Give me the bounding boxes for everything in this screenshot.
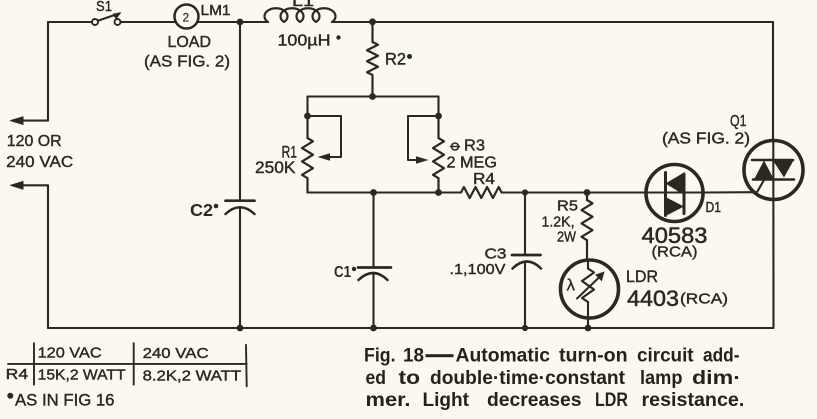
svg-text:to: to — [399, 368, 421, 389]
svg-text:L1: L1 — [292, 0, 314, 10]
svg-text:4403: 4403 — [627, 286, 679, 311]
svg-text:Light: Light — [423, 390, 470, 411]
svg-text:lamp: lamp — [640, 368, 683, 389]
node: lamp output / C2 branch junction — [237, 19, 244, 26]
svg-text:decreases: decreases — [487, 390, 582, 411]
potentiometer R3 — [433, 116, 444, 193]
capacitor C2 — [226, 22, 255, 328]
node: LDR bottom — [585, 325, 592, 332]
svg-text:15K,2 WATT: 15K,2 WATT — [38, 367, 126, 384]
wire: lamp to L1 — [197, 21, 268, 23]
svg-text:λ: λ — [567, 276, 576, 295]
resistor R4 — [461, 187, 502, 198]
resistor R5 — [582, 193, 593, 261]
svg-text:120 VAC: 120 VAC — [38, 345, 102, 362]
wire: lower-left branch from AC arrow down to bottom rail — [14, 185, 48, 328]
svg-text:resistance.: resistance. — [642, 390, 745, 411]
diac D1 — [646, 165, 703, 222]
svg-text:D1: D1 — [706, 199, 722, 216]
svg-text:LOAD: LOAD — [168, 34, 212, 51]
svg-text:Automatic: Automatic — [456, 346, 551, 367]
wire: R1 top drop — [306, 97, 308, 117]
AC source arrow upper — [11, 117, 24, 125]
capacitor C3 — [512, 193, 541, 329]
node: R5 branch junction — [584, 189, 591, 196]
triac Q1 — [744, 22, 803, 328]
wire: middle rail R1 to R4 — [308, 191, 462, 193]
svg-text:S1: S1 — [96, 0, 112, 15]
svg-text:add-: add- — [703, 346, 740, 367]
lamp LM1 — [175, 5, 199, 29]
wire: D1 to Q1 gate — [703, 180, 764, 193]
R3 wiper loop — [408, 116, 439, 164]
node: R2 bottom junction — [369, 93, 376, 100]
svg-text:R5: R5 — [557, 198, 578, 215]
svg-text:(AS FIG. 2): (AS FIG. 2) — [662, 131, 750, 148]
photocell LDR — [561, 260, 619, 318]
svg-text:2: 2 — [183, 11, 190, 25]
node: C2 bottom — [237, 325, 244, 332]
svg-text:C3: C3 — [485, 246, 507, 263]
caption line 2 — [366, 368, 742, 389]
wire: switch to lamp — [121, 21, 176, 23]
figure caption — [364, 346, 744, 412]
inductor L1 — [265, 8, 336, 22]
svg-text:240 VAC: 240 VAC — [143, 345, 209, 362]
svg-text:Fig.: Fig. — [364, 346, 396, 367]
svg-text:2 MEG: 2 MEG — [447, 155, 498, 172]
svg-text:240 VAC: 240 VAC — [6, 154, 73, 171]
svg-text:2W: 2W — [557, 229, 577, 246]
wiper mark for R3 — [451, 143, 460, 150]
node: C1 branch junction — [370, 189, 377, 196]
svg-text:mer.: mer. — [366, 390, 411, 411]
wire: R1/R3 top connecting bar — [308, 95, 439, 97]
svg-text:(AS FIG. 2): (AS FIG. 2) — [144, 54, 230, 71]
svg-text:250K: 250K — [255, 159, 296, 177]
potentiometer R1 — [302, 116, 313, 193]
footnote star — [7, 393, 13, 399]
svg-text:R4: R4 — [6, 366, 29, 383]
svg-text:R3: R3 — [464, 138, 485, 155]
svg-text:double·time·constant: double·time·constant — [430, 368, 626, 389]
svg-text:turn-on: turn-on — [559, 346, 628, 367]
caption line 3 — [366, 390, 745, 411]
wire: top rail left segment from left corner to switch S1 — [48, 21, 92, 23]
svg-text:100µH: 100µH — [278, 33, 331, 50]
svg-text:(RCA): (RCA) — [652, 244, 698, 261]
svg-text:(RCA): (RCA) — [680, 292, 728, 308]
svg-text:LDR: LDR — [595, 390, 628, 411]
table rules — [8, 343, 247, 386]
svg-text:ed: ed — [366, 368, 387, 389]
node: R1 top — [304, 113, 311, 120]
wire: LDR bottom to bottom rail — [587, 318, 589, 328]
svg-text:C2: C2 — [190, 200, 213, 220]
node: C3 bottom — [522, 325, 528, 331]
resistor R2 — [367, 22, 378, 97]
svg-text:.1,100V: .1,100V — [450, 262, 506, 278]
AC source arrow lower — [11, 182, 24, 190]
svg-text:Q1: Q1 — [730, 113, 747, 130]
node: R3 bottom junction — [435, 189, 442, 196]
svg-text:R4: R4 — [473, 171, 495, 188]
wire: L1 to top-right corner — [332, 21, 773, 23]
wire: R3 top drop — [437, 97, 439, 117]
wire: R4 to D1 — [502, 191, 703, 193]
wire: bottom rail — [48, 327, 773, 329]
R1 wiper loop — [308, 116, 342, 161]
svg-text:C1: C1 — [334, 264, 351, 281]
svg-text:18: 18 — [403, 346, 424, 367]
caption line 1 — [364, 346, 740, 367]
svg-text:8.2K,2 WATT: 8.2K,2 WATT — [143, 368, 242, 385]
svg-text:R2: R2 — [385, 51, 406, 69]
svg-text:circuit: circuit — [637, 346, 694, 367]
svg-text:LM1: LM1 — [201, 2, 231, 19]
wire: left vertical drop from top-left corner — [14, 22, 48, 121]
node: R3 top — [435, 113, 442, 120]
switch S1 — [92, 12, 122, 25]
svg-text:120 OR: 120 OR — [7, 133, 62, 150]
svg-text:dim·: dim· — [692, 368, 741, 389]
node: L1/R2 junction — [369, 18, 376, 25]
svg-text:AS IN FIG 16: AS IN FIG 16 — [15, 392, 114, 410]
svg-text:LDR: LDR — [626, 267, 658, 286]
node: C1 bottom — [370, 325, 377, 332]
capacitor C1 — [358, 193, 391, 329]
node: C3 branch junction — [522, 189, 528, 195]
